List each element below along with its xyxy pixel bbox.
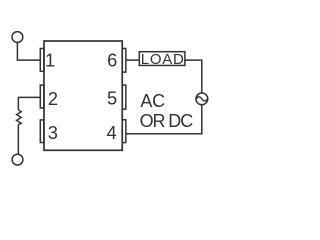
- svg-text:AC: AC: [140, 91, 165, 111]
- terminal circle top-left: [12, 32, 23, 43]
- sine symbol inside AC source: [196, 97, 207, 101]
- terminal circle bottom-left: [12, 154, 23, 165]
- wire AC source to pin 4: [126, 105, 202, 134]
- wire LOAD to AC source: [185, 60, 202, 93]
- svg-text:4: 4: [107, 122, 117, 143]
- IC body U1: [44, 41, 122, 150]
- wire from top terminal to pin 1: [17, 42, 40, 60]
- svg-text:LOAD: LOAD: [141, 51, 185, 68]
- pin 6: [122, 49, 126, 73]
- AC source V1: [196, 93, 208, 105]
- pin 3: [40, 120, 44, 143]
- pin 1: [40, 49, 44, 72]
- svg-text:1: 1: [45, 50, 55, 71]
- pin 2: [40, 85, 44, 108]
- pin 5: [122, 85, 126, 109]
- svg-text:2: 2: [48, 88, 58, 109]
- wire pin 6 to LOAD: [126, 59, 139, 61]
- LOAD box: [139, 52, 185, 66]
- svg-text:OR DC: OR DC: [140, 111, 194, 131]
- pin 4: [122, 120, 126, 143]
- svg-text:5: 5: [107, 88, 117, 109]
- svg-text:3: 3: [48, 122, 58, 143]
- wire from pin 2 to resistor: [18, 97, 41, 109]
- resistor R1: [17, 110, 22, 125]
- svg-text:6: 6: [107, 49, 117, 70]
- wire from resistor to bottom terminal: [17, 125, 19, 155]
